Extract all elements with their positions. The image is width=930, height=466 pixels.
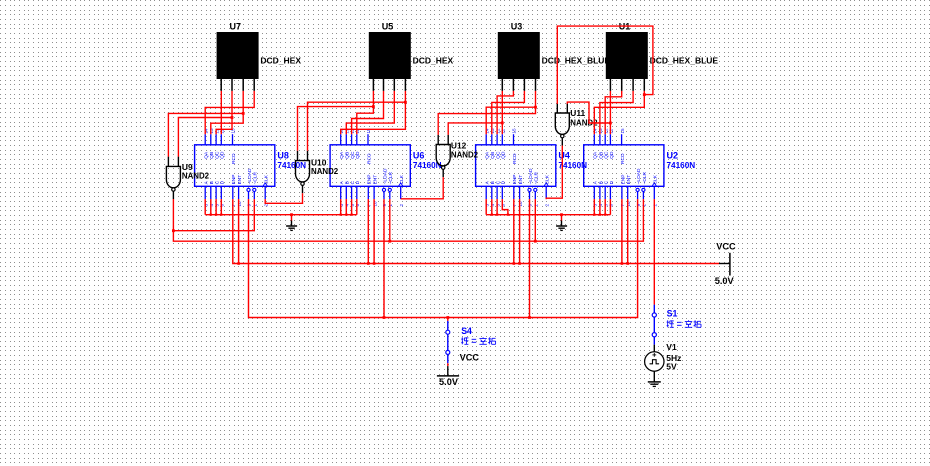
svg-text:QA: QA — [339, 151, 345, 159]
counter IC U8 74160N — [195, 128, 307, 206]
junction VCC bus at U6.ENT — [373, 262, 376, 265]
svg-text:~LOAD: ~LOAD — [636, 168, 642, 184]
svg-text:15: 15 — [620, 128, 625, 134]
svg-text:S4: S4 — [461, 326, 472, 336]
junction gnd bus tee — [507, 214, 509, 216]
wire U11 input A loop around U1 (U2.QA net) — [557, 26, 653, 104]
svg-text:11: 11 — [501, 128, 506, 133]
svg-text:RCO: RCO — [366, 153, 372, 164]
nand gate U10 NAND2 — [296, 151, 339, 193]
svg-text:5.0V: 5.0V — [715, 276, 735, 286]
junction U9 inA on QB net — [242, 112, 245, 115]
wire U9 output / CLR bus — [173, 199, 643, 241]
svg-text:QB: QB — [345, 152, 351, 159]
junction LOAD bus at S4 — [446, 316, 449, 319]
wire U11 output to U4.CLK — [546, 146, 562, 200]
wire U2.CLK to S1 — [653, 199, 655, 305]
wire ground bus left (A-D of U8,U6) — [205, 199, 357, 220]
svg-text:S1: S1 — [667, 308, 678, 318]
svg-text:U8: U8 — [277, 151, 289, 161]
wire U8.QA to U7 pin4 — [205, 91, 254, 134]
junction gnd bus tee — [599, 214, 601, 216]
counter IC U4 74160N — [476, 128, 588, 206]
svg-text:U11: U11 — [570, 108, 585, 118]
svg-text:QA: QA — [485, 151, 491, 159]
wire U9 input B tap (U8.QC net) — [178, 118, 232, 157]
svg-text:~LOAD: ~LOAD — [528, 168, 534, 184]
junction gnd bus tee — [210, 214, 212, 216]
svg-text:DCD_HEX_BLUE: DCD_HEX_BLUE — [542, 55, 611, 65]
svg-text:VCC: VCC — [460, 353, 480, 363]
junction U11 inA on pin4 net — [643, 93, 646, 96]
wire U11 input B tap (U2.QD net) — [567, 102, 610, 123]
seven-seg display U7 (DCD_HEX) — [217, 21, 302, 91]
seven-seg display U3 (DCD_HEX_BLUE) — [498, 21, 611, 91]
svg-text:CLK: CLK — [264, 174, 270, 184]
junction ground tap left — [290, 213, 293, 216]
svg-text:~CLR: ~CLR — [534, 171, 540, 184]
wire U6.QA to U5 pin4 — [341, 91, 406, 134]
wire branch to U8.~CLR — [173, 199, 254, 231]
junction LOAD bus at U6 — [383, 316, 386, 319]
svg-text:ENT: ENT — [626, 175, 632, 185]
wire U6.QD to U5 pin1 — [357, 91, 374, 134]
svg-text:74160N: 74160N — [667, 161, 696, 170]
svg-text:C: C — [604, 180, 610, 184]
svg-text:ENP: ENP — [367, 175, 373, 185]
svg-text:VCC: VCC — [716, 242, 736, 252]
junction VCC bus at U4.ENP — [513, 262, 516, 265]
junction U10 inB on QA net — [404, 101, 407, 104]
svg-text:5V: 5V — [666, 362, 677, 372]
junction U12 inB on QD net — [501, 122, 504, 125]
junction VCC bus at U2.ENT — [626, 262, 629, 265]
junction gnd bus tee — [491, 214, 493, 216]
wire U4.QD to U3 pin1 — [501, 91, 503, 134]
junction gnd bus tee — [215, 214, 217, 216]
svg-text:QB: QB — [598, 152, 604, 159]
svg-text:CLK: CLK — [653, 174, 659, 184]
wire U4.QA riser — [486, 107, 535, 134]
svg-text:CLK: CLK — [399, 174, 405, 184]
seven-seg display U1 (DCD_HEX_BLUE) — [606, 21, 719, 91]
svg-text:QC: QC — [350, 151, 356, 159]
svg-text:U10: U10 — [311, 158, 327, 168]
svg-text:U5: U5 — [382, 21, 394, 31]
wire U6.QC to U5 pin2 — [352, 91, 384, 134]
svg-text:~LOAD: ~LOAD — [382, 168, 388, 184]
ground below V1 — [648, 382, 661, 387]
junction U11 inB on QD net — [609, 122, 612, 125]
switch S1 (key = space) — [652, 305, 701, 345]
wire U12 output to U6.CLK — [401, 177, 444, 199]
junction gnd bus tee — [340, 214, 342, 216]
svg-text:B: B — [598, 181, 604, 184]
svg-text:B: B — [209, 181, 215, 184]
junction ground tap right — [560, 213, 563, 216]
svg-text:D: D — [609, 180, 615, 184]
svg-text:DCD_HEX: DCD_HEX — [260, 55, 301, 65]
wire U4.QC to U3 pin2 — [497, 91, 513, 134]
svg-text:C: C — [350, 180, 356, 184]
junction VCC bus at U6.ENP — [367, 262, 370, 265]
svg-text:QA: QA — [204, 151, 210, 159]
clock source V1 5Hz 5V — [645, 342, 682, 382]
svg-text:U7: U7 — [230, 21, 242, 31]
wire U12 input B tap (U4.QD net) — [448, 123, 502, 135]
svg-text:QD: QD — [501, 151, 507, 159]
junction U10 inA on QD net — [372, 105, 375, 108]
junction U4.QA on pin4 net — [534, 106, 537, 109]
svg-text:NAND2: NAND2 — [182, 172, 210, 181]
svg-text:QB: QB — [209, 152, 215, 159]
junction LOAD bus at U4 — [528, 316, 531, 319]
junction CLR bus at U9 out — [172, 229, 175, 232]
svg-text:RCO: RCO — [620, 153, 626, 164]
svg-text:ENP: ENP — [231, 175, 237, 185]
svg-text:QC: QC — [496, 151, 502, 159]
svg-text:DCD_HEX_BLUE: DCD_HEX_BLUE — [650, 55, 719, 65]
wire U2.QA to U1 pin4 — [594, 91, 644, 134]
wire U4.QB to U3 pin3 — [492, 91, 525, 134]
svg-text:QB: QB — [490, 152, 496, 159]
wire U2.QB to U1 pin3 — [600, 91, 633, 134]
svg-text:ENT: ENT — [518, 175, 524, 185]
power terminal VCC right 5.0V — [715, 242, 736, 286]
junction gnd bus tee — [604, 214, 606, 216]
wire LOAD bus (~LOAD pins to S4) — [249, 199, 638, 317]
svg-text:QD: QD — [355, 151, 361, 159]
svg-text:5.0V: 5.0V — [439, 377, 459, 387]
wire branch to U6.~CLR — [389, 199, 391, 241]
wire U10 output to U8.CLK — [265, 193, 302, 203]
wire U10 input B tap (U6.QA net) — [308, 102, 406, 151]
ground symbol right — [556, 221, 567, 231]
svg-text:D: D — [501, 180, 507, 184]
wire U8.QD to U7 pin1 — [220, 91, 222, 134]
wire U9 input A tap (U8.QB net) — [168, 113, 243, 156]
wire U10 input A tap (U6.QD net) — [298, 107, 374, 151]
svg-text:RCO: RCO — [512, 153, 518, 164]
wire VCC bus (ENP/ENT pins to VCC) — [233, 199, 719, 263]
svg-text:U3: U3 — [511, 21, 523, 31]
svg-text:~CLR: ~CLR — [253, 171, 259, 184]
svg-text:2: 2 — [399, 204, 404, 207]
junction VCC bus at U4.ENT — [518, 262, 521, 265]
wire U6.QB to U5 pin3 — [346, 91, 394, 134]
junction gnd bus tee — [351, 214, 353, 216]
wire U2.QC to U1 pin2 — [605, 91, 622, 134]
nand gate U9 NAND2 — [166, 157, 209, 199]
svg-text:15: 15 — [512, 128, 517, 134]
svg-text:B: B — [490, 181, 496, 184]
svg-text:QA: QA — [593, 151, 599, 159]
seven-seg display U5 (DCD_HEX) — [369, 21, 454, 91]
svg-text:RCO: RCO — [231, 153, 237, 164]
svg-text:U6: U6 — [413, 151, 425, 161]
svg-text:D: D — [355, 180, 361, 184]
svg-text:QD: QD — [220, 151, 226, 159]
svg-text:D: D — [220, 180, 226, 184]
svg-text:ENT: ENT — [237, 175, 243, 185]
ground symbol left — [286, 221, 297, 231]
svg-text:~LOAD: ~LOAD — [247, 168, 253, 184]
svg-text:NAND2: NAND2 — [311, 167, 339, 176]
nand gate U12 NAND2 — [436, 135, 478, 177]
wire branch to U4.~CLR — [534, 199, 536, 241]
svg-text:ENP: ENP — [512, 175, 518, 185]
junction gnd bus tee — [345, 214, 347, 216]
wire U8.QC to U7 pin2 — [216, 91, 232, 134]
switch S4 (key = space) — [446, 321, 496, 363]
wire U8.QB to U7 pin3 — [211, 91, 243, 134]
svg-text:1: 1 — [388, 204, 393, 207]
power terminal VCC bottom 5.0V — [437, 353, 479, 387]
counter IC U2 74160N — [584, 128, 696, 206]
svg-text:74160N: 74160N — [277, 161, 306, 170]
svg-text:B: B — [345, 181, 351, 184]
svg-text:ENT: ENT — [373, 175, 379, 185]
junction VCC bus at U2.ENP — [621, 262, 624, 265]
svg-text:QD: QD — [609, 151, 615, 159]
junction VCC bus at U8.ENT — [237, 262, 240, 265]
junction U9 inB on QC net — [231, 116, 234, 119]
wire U3 pin4 to U12 input A — [438, 91, 535, 135]
wire U2.QD to U1 pin1 — [609, 91, 611, 134]
svg-text:C: C — [496, 180, 502, 184]
svg-text:DCD_HEX: DCD_HEX — [413, 55, 454, 65]
junction gnd bus tee — [496, 214, 498, 216]
svg-text:QC: QC — [215, 151, 221, 159]
svg-text:QC: QC — [604, 151, 610, 159]
wire S4 to VCC terminal — [447, 363, 449, 366]
svg-text:C: C — [215, 180, 221, 184]
svg-text:~CLR: ~CLR — [388, 171, 394, 184]
svg-text:NAND2: NAND2 — [451, 151, 479, 160]
svg-text:U9: U9 — [182, 162, 193, 172]
svg-text:2: 2 — [544, 204, 549, 207]
svg-text:V1: V1 — [666, 342, 677, 352]
wire LOAD bus to S4 — [447, 318, 449, 321]
wire ground bus right (A-D of U4,U2) — [486, 199, 610, 220]
junction gnd bus tee — [593, 214, 595, 216]
svg-text:~CLR: ~CLR — [642, 171, 648, 184]
svg-text:CLK: CLK — [545, 174, 551, 184]
junction CLR bus at U4 — [534, 240, 537, 243]
junction CLR bus at U6 — [388, 240, 391, 243]
junction gnd bus tee — [220, 214, 222, 216]
svg-text:U12: U12 — [451, 140, 467, 150]
counter IC U6 74160N — [330, 128, 442, 206]
svg-text:U2: U2 — [667, 151, 679, 161]
svg-text:U4: U4 — [558, 151, 570, 161]
nand gate U11 NAND2 — [555, 103, 598, 145]
svg-text:ENP: ENP — [620, 175, 626, 185]
